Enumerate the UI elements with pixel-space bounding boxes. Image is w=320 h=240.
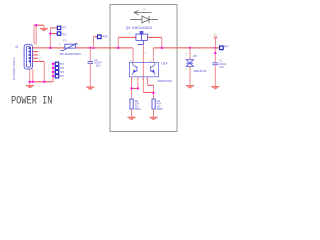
node — [214, 52, 216, 54]
node — [92, 47, 94, 49]
ground — [26, 85, 34, 88]
wire pin1 VBUS bus to fuse — [33, 47, 65, 49]
svg-text:PP7: PP7 — [224, 44, 229, 48]
svg-text:4: 4 — [145, 53, 147, 55]
svg-text:1: 1 — [38, 46, 40, 48]
wire fuse to box — [76, 47, 111, 49]
shield test point column — [0, 0, 1, 1]
node — [130, 87, 132, 89]
right BJT — [150, 66, 152, 72]
svg-text:C1: C1 — [219, 59, 223, 63]
wire bus into U14 pin — [118, 47, 133, 49]
connector J1 (micro-USB power in) — [24, 44, 32, 69]
op-amp U14 (dual PNP transistor pack) — [130, 62, 159, 76]
node source junction — [161, 47, 163, 49]
node — [49, 47, 51, 49]
node — [32, 81, 34, 83]
svg-text:TP1: TP1 — [62, 26, 67, 30]
svg-text:3: 3 — [129, 32, 131, 36]
svg-text:Q3: Q3 — [126, 26, 131, 30]
svg-text:0805: 0805 — [157, 107, 163, 111]
svg-text:10118192-0001LF: 10118192-0001LF — [12, 57, 16, 80]
transistor Q3 (P-MOSFET) — [136, 31, 148, 44]
svg-text:PP20: PP20 — [102, 34, 109, 38]
svg-text:1: 1 — [132, 78, 134, 81]
wire Q3 source to 5V out — [147, 36, 161, 38]
svg-text:TP4: TP4 — [60, 63, 65, 66]
node — [52, 75, 54, 77]
node gate/R4 junction — [152, 92, 154, 94]
power flag arrow — [40, 28, 48, 31]
wire R2 to ground — [131, 109, 133, 117]
svg-text:1: 1 — [59, 43, 61, 46]
diode D5 TVS — [189, 48, 191, 60]
node — [52, 71, 54, 73]
svg-text:3: 3 — [39, 55, 41, 57]
ground — [149, 117, 157, 120]
current-flow annotation arrow — [134, 10, 152, 14]
test point TP4 — [55, 62, 58, 65]
svg-text:1: 1 — [186, 67, 188, 70]
capacitor C3 — [89, 48, 91, 61]
test point PP20 — [94, 37, 98, 48]
svg-text:2: 2 — [77, 43, 79, 46]
ground — [86, 87, 94, 90]
connector stub pins 2-4 — [33, 52, 39, 59]
node drain junction — [117, 47, 119, 49]
svg-text:0805: 0805 — [135, 107, 141, 111]
svg-text:16V: 16V — [219, 65, 224, 69]
svg-text:TP7: TP7 — [60, 75, 65, 78]
resistor R2 — [130, 99, 133, 109]
test point PP7 — [215, 47, 219, 49]
ground — [211, 86, 219, 89]
POWER IN title — [11, 95, 52, 107]
svg-text:4: 4 — [39, 58, 41, 60]
node — [29, 81, 31, 83]
ground — [127, 117, 135, 120]
test point TP3 — [57, 32, 60, 35]
node — [35, 24, 37, 26]
svg-text:TP3: TP3 — [62, 33, 67, 37]
node — [52, 67, 54, 69]
wire R4 to ground — [153, 109, 155, 117]
node — [189, 47, 191, 49]
test point TP6 — [55, 70, 58, 73]
node — [137, 87, 139, 89]
annotation diode — [130, 16, 158, 23]
test point TP1 — [57, 26, 60, 29]
node — [89, 47, 91, 49]
svg-text:SMBJ5.0A: SMBJ5.0A — [193, 69, 206, 73]
svg-text:~0V: ~0V — [142, 9, 146, 11]
svg-text:F1: F1 — [63, 38, 67, 42]
protection-circuit box — [110, 5, 177, 132]
node — [49, 32, 51, 34]
left BJT — [136, 66, 138, 72]
wire U14 to R4 — [0, 0, 1, 1]
svg-text:2: 2 — [186, 54, 188, 57]
wire shell pins down — [0, 0, 1, 1]
svg-text:TP5: TP5 — [60, 67, 65, 70]
svg-text:2: 2 — [39, 52, 41, 54]
node — [52, 63, 54, 65]
wire shell pins up — [0, 0, 1, 1]
resistor R4 — [152, 99, 155, 109]
test point TP5 — [55, 66, 58, 69]
svg-text:TP6: TP6 — [60, 71, 65, 74]
node — [214, 47, 216, 49]
ground — [186, 85, 194, 88]
wire 5V side into U14 pin — [0, 0, 1, 1]
node — [43, 81, 45, 83]
wire Q3 gate down — [0, 0, 1, 1]
svg-text:DMG2305UX: DMG2305UX — [132, 26, 153, 30]
wire VBUS-in to Q3 drain — [110, 37, 136, 48]
svg-text:J1: J1 — [15, 45, 19, 49]
capacitor C1 — [214, 48, 216, 63]
svg-text:U14: U14 — [162, 61, 168, 65]
svg-text:2: 2 — [148, 32, 150, 36]
wire U14 base/collector to R2 — [0, 0, 1, 1]
wire pin5 gnd — [33, 60, 45, 62]
svg-text:D5: D5 — [193, 54, 197, 58]
svg-text:16V: 16V — [96, 63, 101, 67]
wire box to 5V rail — [177, 47, 215, 49]
test point TP7 — [55, 75, 58, 78]
svg-text:DMMT5401: DMMT5401 — [158, 79, 173, 83]
wire TP drop to bus — [0, 0, 1, 1]
svg-text:MF-MSMF250/X: MF-MSMF250/X — [60, 52, 81, 56]
svg-text:5V: 5V — [214, 34, 218, 38]
